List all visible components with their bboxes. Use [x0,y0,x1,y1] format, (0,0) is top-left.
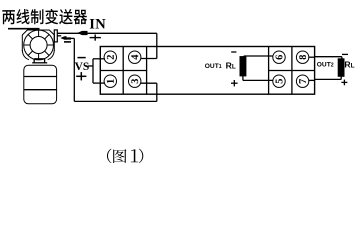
minus sign above VS [78,57,86,59]
wire RL2 bottom hook [340,76,342,79]
svg-text:OUT2: OUT2 [317,61,334,68]
transmitter head outline [22,30,54,51]
wire stub terminal 1 [93,82,105,84]
terminal 7 [296,75,308,87]
wire riser to terminal 3 [156,83,158,101]
wire RL2 bottom [315,78,342,80]
terminal 5 [273,75,285,87]
wire W1+ from transmitter top [57,32,157,34]
terminal 4 [129,51,141,63]
plus sign near IN [90,37,101,39]
transmitter neck [32,62,47,64]
left block divider [122,47,124,95]
wire RL1 bottom hook [242,76,244,81]
transmitter side terminal bracket [54,30,57,42]
left block horizontal divider [100,70,146,72]
wire VS bus vertical [92,59,94,83]
svg-text:RL: RL [226,60,236,70]
title text 两线制变送器 [2,9,87,24]
transmitter ring outer circle [24,30,54,60]
minus sign OUT1 [231,51,236,53]
wire RL1 top to terminal 6 [244,55,273,57]
wire RL2 top [315,56,342,58]
svg-text:OUT1: OUT1 [205,63,222,70]
svg-text:IN: IN [89,16,106,32]
svg-text:RL: RL [344,60,354,70]
VS tick to bus [88,65,93,67]
arrow on W1 (current direction) [77,31,87,35]
transmitter ring inner circle [30,37,47,54]
wire RL1 top hook [243,55,245,58]
wire W2 bottom loop [74,100,157,102]
wire stub terminal 2 [93,58,105,60]
terminal 3 [129,75,141,87]
title underline [8,28,40,30]
wire stub terminal 8 [309,56,315,58]
resistor RL1 [240,57,246,76]
terminal 6 [273,51,285,63]
wire stub terminal 4 [141,58,157,60]
right block horizontal divider [269,70,315,72]
plus sign OUT2 [341,81,347,83]
minus sign under W2 [64,41,71,43]
caption (图 1) [107,149,143,164]
svg-text:VS: VS [75,61,90,73]
terminal 8 [296,51,308,63]
transmitter body [24,65,57,104]
minus sign OUT2 [342,53,348,55]
wire W2- from transmitter [57,35,61,37]
plus sign below VS [76,75,86,77]
wire W2- to corner [71,37,75,39]
wire RL1 bottom to terminal 5 [243,79,273,81]
wire stub terminal 7 [309,79,315,81]
instrument terminal strip rectangle [100,47,314,95]
wire RL2 top hook [341,57,343,59]
wire W1 drop to terminal 4 [156,33,158,58]
arrow on W2 (current direction) [60,36,71,40]
transmitter ring spokes [24,30,54,60]
terminal 1 [104,75,116,87]
transmitter neck [34,58,44,60]
right block left edge [268,47,270,95]
left block right edge [146,47,148,95]
wire W2 vertical down [73,38,75,101]
wire stub terminal 3 [141,82,157,84]
terminal 2 [104,51,116,63]
resistor RL2 [338,59,344,77]
right block divider [291,47,293,95]
plus sign OUT1 [231,82,238,84]
